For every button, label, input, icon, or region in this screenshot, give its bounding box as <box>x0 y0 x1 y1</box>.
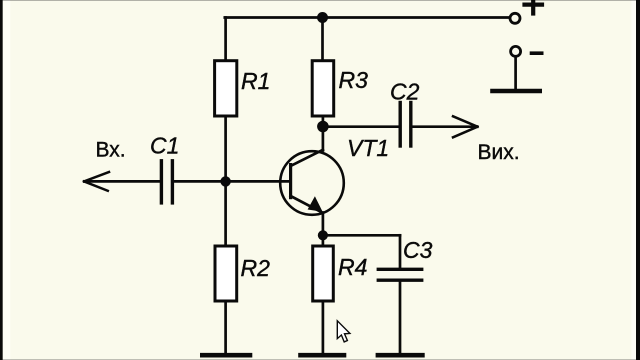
svg-text:Вих.: Вих. <box>478 141 520 164</box>
svg-text:R1: R1 <box>241 68 270 94</box>
capacitor C1 <box>161 161 172 203</box>
node top junction <box>317 12 328 23</box>
svg-text:R4: R4 <box>338 254 367 280</box>
ground under C3 <box>378 353 423 358</box>
minus sign <box>532 51 542 55</box>
wire C3 top <box>399 235 402 268</box>
ground top right <box>493 89 540 94</box>
wire C2 to output <box>411 125 477 128</box>
wire R3 bottom to collector <box>322 116 325 151</box>
wire R1 bottom to base node <box>224 116 227 181</box>
mouse cursor <box>337 321 350 342</box>
ground under R4 <box>301 353 345 358</box>
wire C3 bottom <box>399 280 402 353</box>
wire R2 bottom <box>224 301 227 353</box>
output arrow <box>453 116 478 137</box>
capacitor C3 <box>378 269 421 280</box>
wire emitter to C3 branch <box>323 234 400 237</box>
wire top rail <box>225 16 510 19</box>
node base junction <box>220 176 230 186</box>
plus sign <box>525 0 543 14</box>
node collector junction <box>317 121 329 133</box>
resistor R2 <box>215 246 237 301</box>
wire top junction to R3 <box>321 18 324 62</box>
terminal plus circle <box>510 13 520 23</box>
svg-text:R3: R3 <box>339 67 369 93</box>
wire input to C1 <box>85 180 161 183</box>
wire C1 to base <box>172 180 290 183</box>
wire R4 bottom <box>322 301 325 353</box>
input arrow <box>84 172 109 191</box>
wire minus to ground <box>514 56 517 89</box>
node emitter junction <box>318 230 328 240</box>
terminal minus circle <box>511 46 521 56</box>
wire base node to R2 <box>224 181 227 246</box>
resistor R4 <box>313 246 334 301</box>
ground under R2 <box>202 353 250 358</box>
resistor R1 <box>215 61 237 116</box>
wire left vertical to R1 <box>224 18 227 62</box>
capacitor C2 <box>400 103 411 147</box>
wire collector to C2 <box>323 125 399 128</box>
wire emitter vertical <box>322 213 325 247</box>
svg-text:VT1: VT1 <box>347 135 389 161</box>
svg-text:C1: C1 <box>150 133 179 159</box>
svg-text:C3: C3 <box>403 237 433 263</box>
svg-text:Вх.: Вх. <box>96 139 126 162</box>
resistor R3 <box>312 61 334 116</box>
svg-text:C2: C2 <box>390 79 420 105</box>
svg-text:R2: R2 <box>241 255 271 281</box>
transistor VT1 <box>280 150 344 215</box>
